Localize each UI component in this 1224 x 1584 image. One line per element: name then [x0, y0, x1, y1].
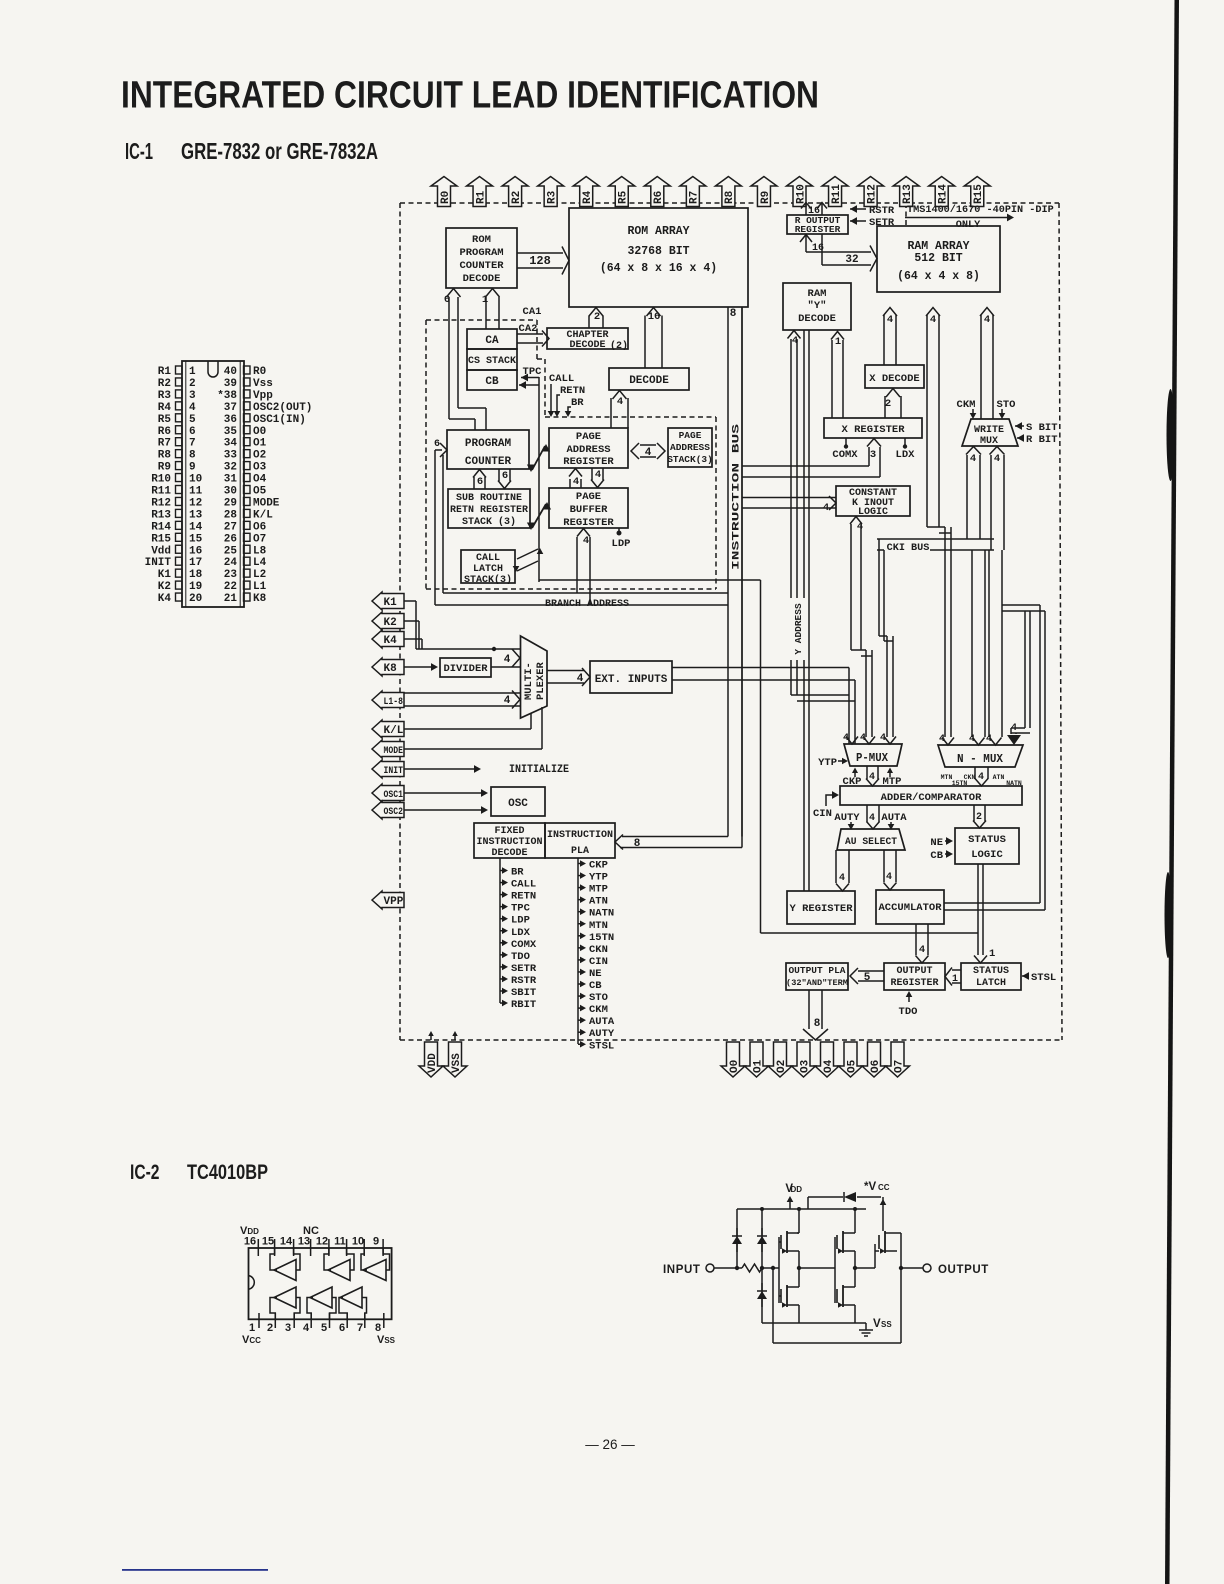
svg-text:X DECODE: X DECODE	[869, 373, 919, 385]
svg-text:O1: O1	[253, 438, 267, 450]
svg-text:DD: DD	[790, 1185, 802, 1194]
svg-text:*38: *38	[217, 390, 237, 402]
svg-text:VDD: VDD	[427, 1053, 439, 1073]
svg-text:RETN: RETN	[560, 385, 585, 397]
svg-text:L1-8: L1-8	[384, 696, 404, 708]
svg-text:26: 26	[224, 533, 237, 545]
svg-text:11: 11	[334, 1236, 346, 1248]
svg-text:LOGIC: LOGIC	[971, 849, 1003, 861]
svg-text:27: 27	[224, 521, 237, 533]
svg-text:128: 128	[529, 254, 551, 268]
svg-text:S BIT: S BIT	[1026, 422, 1058, 434]
svg-text:RAM: RAM	[808, 288, 827, 300]
svg-text:STSL: STSL	[1031, 972, 1056, 984]
svg-text:10: 10	[189, 474, 202, 486]
svg-text:6: 6	[502, 470, 508, 482]
svg-text:15: 15	[189, 533, 203, 545]
svg-text:ADDRESS: ADDRESS	[670, 442, 710, 453]
svg-text:LDX: LDX	[511, 927, 531, 939]
svg-text:LDX: LDX	[896, 449, 916, 461]
svg-text:DECODE: DECODE	[569, 340, 605, 351]
svg-text:2: 2	[189, 378, 196, 390]
svg-text:13: 13	[189, 509, 203, 521]
svg-text:19: 19	[189, 581, 202, 593]
svg-text:O3: O3	[799, 1059, 811, 1073]
svg-text:2: 2	[976, 812, 982, 823]
svg-text:LOGIC: LOGIC	[858, 507, 888, 518]
svg-text:CA2: CA2	[519, 323, 538, 335]
svg-text:R5: R5	[158, 414, 172, 426]
svg-text:RBIT: RBIT	[511, 999, 536, 1011]
svg-text:25: 25	[224, 545, 238, 557]
svg-text:31: 31	[224, 474, 238, 486]
svg-text:Y REGISTER: Y REGISTER	[789, 903, 853, 915]
svg-text:OSC2(OUT): OSC2(OUT)	[253, 402, 312, 414]
svg-text:STO: STO	[589, 992, 608, 1004]
svg-text:4: 4	[919, 944, 925, 956]
svg-text:R8: R8	[724, 190, 736, 204]
svg-text:VPP: VPP	[384, 896, 404, 908]
svg-text:INSTRUCTION BUS: INSTRUCTION BUS	[731, 424, 743, 570]
svg-text:R7: R7	[689, 191, 701, 204]
svg-text:4: 4	[595, 469, 601, 481]
svg-text:ADDER/COMPARATOR: ADDER/COMPARATOR	[881, 792, 983, 804]
svg-text:DECODE: DECODE	[629, 375, 669, 387]
svg-text:ATN: ATN	[589, 896, 608, 908]
svg-text:R14: R14	[938, 184, 950, 204]
svg-text:STACK (3): STACK (3)	[462, 516, 516, 528]
svg-text:R3: R3	[546, 190, 558, 204]
svg-text:CKM: CKM	[589, 1004, 608, 1016]
svg-text:14: 14	[189, 521, 203, 533]
svg-text:REGISTER: REGISTER	[890, 978, 938, 989]
svg-text:CB: CB	[930, 850, 943, 862]
svg-text:512 BIT: 512 BIT	[914, 252, 962, 265]
svg-text:TPC: TPC	[511, 903, 531, 915]
svg-text:O3: O3	[253, 462, 267, 474]
svg-text:4: 4	[839, 873, 845, 884]
svg-text:PLA: PLA	[571, 846, 589, 857]
svg-text:24: 24	[224, 557, 238, 569]
svg-text:RSTR: RSTR	[869, 205, 895, 217]
svg-text:7: 7	[357, 1322, 363, 1334]
svg-text:4: 4	[189, 402, 196, 414]
svg-text:MULTI-: MULTI-	[523, 662, 535, 700]
svg-text:8: 8	[634, 838, 641, 850]
svg-text:INSTRUCTION: INSTRUCTION	[547, 830, 613, 841]
svg-text:SETR: SETR	[869, 217, 895, 229]
svg-text:NC: NC	[303, 1225, 319, 1237]
svg-text:4: 4	[939, 734, 945, 745]
svg-text:K4: K4	[384, 635, 398, 647]
svg-text:AUTA: AUTA	[881, 812, 907, 824]
svg-text:29: 29	[224, 497, 237, 509]
svg-text:PROGRAM: PROGRAM	[459, 247, 503, 259]
svg-text:4: 4	[930, 314, 936, 326]
svg-text:"Y": "Y"	[808, 300, 827, 312]
svg-text:PAGE: PAGE	[576, 491, 601, 503]
svg-text:(2): (2)	[610, 340, 628, 352]
svg-text:O0: O0	[253, 426, 266, 438]
svg-text:R1: R1	[158, 366, 172, 378]
svg-text:Vpp: Vpp	[253, 390, 273, 402]
svg-text:LDP: LDP	[612, 538, 631, 550]
svg-text:R9: R9	[158, 462, 171, 474]
svg-text:R4: R4	[582, 190, 594, 204]
svg-text:CS STACK: CS STACK	[468, 356, 516, 367]
svg-text:— 26 —: — 26 —	[585, 1437, 635, 1452]
svg-text:32: 32	[224, 462, 237, 474]
svg-text:4: 4	[869, 813, 875, 824]
svg-text:15TN: 15TN	[589, 932, 614, 944]
svg-text:IC-2: IC-2	[130, 1161, 160, 1184]
svg-text:O1: O1	[752, 1059, 764, 1073]
svg-text:32: 32	[845, 254, 858, 266]
svg-text:14: 14	[280, 1236, 293, 1248]
svg-text:RETN: RETN	[511, 891, 536, 903]
svg-text:R1: R1	[475, 190, 487, 204]
svg-text:ONLY: ONLY	[956, 220, 981, 231]
svg-text:MTN: MTN	[941, 774, 953, 781]
svg-text:PAGE: PAGE	[679, 430, 702, 441]
svg-text:1: 1	[989, 948, 995, 960]
svg-text:NATN: NATN	[589, 908, 614, 920]
svg-text:N - MUX: N - MUX	[957, 752, 1004, 766]
svg-text:4: 4	[994, 453, 1000, 465]
svg-text:RSTR: RSTR	[511, 975, 537, 987]
svg-text:4: 4	[869, 772, 875, 783]
svg-text:17: 17	[189, 557, 202, 569]
svg-text:4: 4	[792, 335, 798, 347]
svg-text:*V: *V	[864, 1181, 876, 1193]
svg-text:Vdd: Vdd	[151, 545, 171, 557]
svg-text:28: 28	[224, 509, 238, 521]
svg-text:ACCUMLATOR: ACCUMLATOR	[878, 902, 942, 914]
svg-text:(64 x 8 x 16 x 4): (64 x 8 x 16 x 4)	[600, 262, 717, 275]
svg-text:21: 21	[224, 593, 238, 605]
svg-text:8: 8	[814, 1018, 821, 1030]
svg-text:COUNTER: COUNTER	[459, 260, 504, 272]
svg-text:18: 18	[189, 569, 203, 581]
svg-text:K1: K1	[384, 597, 398, 609]
svg-text:AUTY: AUTY	[589, 1028, 615, 1040]
svg-text:X REGISTER: X REGISTER	[841, 424, 905, 436]
svg-text:IC-1: IC-1	[125, 138, 153, 164]
svg-text:6: 6	[339, 1322, 345, 1334]
svg-text:23: 23	[224, 569, 238, 581]
svg-text:O5: O5	[846, 1059, 858, 1073]
svg-text:WRITE: WRITE	[974, 425, 1004, 436]
svg-text:INIT: INIT	[384, 765, 404, 777]
svg-text:OSC2: OSC2	[384, 806, 404, 818]
svg-text:CKN: CKN	[589, 944, 608, 956]
svg-text:R8: R8	[158, 450, 172, 462]
svg-text:5: 5	[189, 414, 196, 426]
svg-text:12: 12	[316, 1236, 328, 1248]
svg-text:33: 33	[224, 450, 238, 462]
svg-text:VCC: VCC	[242, 1334, 261, 1346]
svg-text:DECODE: DECODE	[491, 848, 527, 859]
svg-text:35: 35	[224, 426, 238, 438]
svg-text:DIVIDER: DIVIDER	[443, 663, 488, 675]
svg-text:R7: R7	[158, 438, 171, 450]
svg-text:OUTPUT: OUTPUT	[938, 1264, 989, 1276]
svg-text:4: 4	[978, 772, 984, 783]
svg-text:O5: O5	[253, 486, 267, 498]
svg-text:ROM: ROM	[472, 234, 491, 246]
svg-text:3: 3	[870, 449, 876, 461]
svg-text:CIN: CIN	[589, 956, 608, 968]
svg-text:2: 2	[594, 311, 600, 323]
svg-text:NE: NE	[589, 968, 602, 980]
svg-text:20: 20	[189, 593, 202, 605]
svg-text:SS: SS	[881, 1320, 892, 1329]
svg-text:R0: R0	[440, 191, 452, 204]
svg-text:MODE: MODE	[253, 497, 280, 509]
svg-text:4: 4	[843, 733, 849, 744]
svg-text:16: 16	[189, 545, 202, 557]
svg-text:CALL: CALL	[511, 879, 536, 891]
svg-text:7: 7	[189, 438, 196, 450]
svg-text:REGISTER: REGISTER	[795, 224, 841, 235]
svg-text:OUTPUT PLA: OUTPUT PLA	[788, 965, 845, 976]
svg-text:R12: R12	[151, 497, 171, 509]
svg-text:4: 4	[303, 1322, 310, 1334]
svg-text:GRE-7832 or GRE-7832A: GRE-7832 or GRE-7832A	[181, 138, 378, 164]
svg-text:15: 15	[262, 1236, 274, 1248]
svg-text:INITIALIZE: INITIALIZE	[509, 764, 569, 776]
svg-text:4: 4	[577, 673, 584, 685]
svg-text:V: V	[873, 1318, 881, 1330]
svg-text:4: 4	[860, 733, 866, 744]
svg-text:1: 1	[482, 294, 488, 306]
svg-text:1: 1	[189, 366, 196, 378]
svg-text:AUTA: AUTA	[589, 1016, 615, 1028]
svg-text:R15: R15	[151, 533, 171, 545]
svg-text:R2: R2	[158, 378, 171, 390]
svg-text:6: 6	[444, 294, 450, 306]
svg-text:COMX: COMX	[832, 449, 858, 461]
svg-text:22: 22	[224, 581, 237, 593]
svg-text:16: 16	[648, 311, 661, 323]
svg-text:LATCH: LATCH	[473, 564, 503, 575]
svg-text:1: 1	[952, 974, 958, 985]
svg-text:4: 4	[887, 314, 893, 326]
svg-text:BR: BR	[511, 867, 524, 879]
svg-text:8: 8	[189, 450, 196, 462]
svg-text:4: 4	[617, 396, 623, 408]
svg-text:SETR: SETR	[511, 963, 537, 975]
svg-text:CIN: CIN	[813, 808, 832, 820]
svg-text:LDP: LDP	[511, 915, 530, 927]
svg-text:R4: R4	[158, 402, 172, 414]
svg-text:R10: R10	[151, 474, 171, 486]
svg-text:TC4010BP: TC4010BP	[187, 1161, 268, 1184]
svg-text:O7: O7	[893, 1060, 905, 1073]
svg-text:STATUS: STATUS	[968, 834, 1006, 846]
svg-text:K/L: K/L	[384, 725, 404, 737]
svg-text:COMX: COMX	[511, 939, 537, 951]
svg-text:L4: L4	[253, 557, 267, 569]
svg-text:O4: O4	[253, 474, 267, 486]
svg-text:YTP: YTP	[589, 872, 608, 884]
svg-text:STACK(3): STACK(3)	[667, 454, 713, 465]
svg-text:VSS: VSS	[451, 1053, 463, 1073]
svg-text:CC: CC	[878, 1183, 890, 1192]
svg-text:K1: K1	[158, 569, 172, 581]
svg-text:INIT: INIT	[145, 557, 172, 569]
svg-text:4: 4	[583, 535, 589, 547]
svg-text:12: 12	[189, 497, 202, 509]
svg-text:11: 11	[189, 486, 203, 498]
svg-text:MUX: MUX	[980, 436, 998, 447]
svg-text:37: 37	[224, 402, 237, 414]
svg-text:CB: CB	[485, 376, 499, 388]
svg-text:STO: STO	[997, 399, 1016, 411]
svg-text:DECODE: DECODE	[798, 313, 836, 325]
svg-text:39: 39	[224, 378, 237, 390]
svg-text:9: 9	[373, 1236, 379, 1248]
svg-text:CA1: CA1	[523, 306, 542, 318]
svg-text:MTP: MTP	[589, 884, 608, 896]
svg-text:Y ADDRESS: Y ADDRESS	[793, 603, 804, 655]
svg-text:2: 2	[885, 398, 891, 410]
svg-text:EXT. INPUTS: EXT. INPUTS	[595, 674, 668, 686]
svg-text:R3: R3	[158, 390, 172, 402]
svg-text:PROGRAM: PROGRAM	[465, 438, 512, 450]
svg-text:OSC: OSC	[508, 798, 528, 810]
svg-text:4: 4	[970, 453, 976, 465]
svg-text:4: 4	[986, 734, 992, 745]
svg-text:R15: R15	[973, 184, 985, 204]
svg-text:36: 36	[224, 414, 237, 426]
svg-text:4: 4	[880, 733, 886, 744]
svg-text:(32"AND"TERM: (32"AND"TERM	[786, 978, 848, 988]
svg-text:1: 1	[249, 1322, 255, 1334]
svg-text:R9: R9	[760, 191, 772, 204]
svg-text:K2: K2	[158, 581, 171, 593]
svg-text:NE: NE	[930, 837, 943, 849]
svg-text:R11: R11	[151, 486, 171, 498]
svg-text:4: 4	[823, 502, 829, 514]
svg-text:MTN: MTN	[589, 920, 608, 932]
svg-text:FIXED: FIXED	[494, 826, 524, 837]
svg-text:R10: R10	[795, 184, 807, 204]
svg-text:4: 4	[984, 314, 990, 326]
svg-text:R6: R6	[158, 426, 171, 438]
svg-text:R13: R13	[902, 184, 914, 204]
svg-text:ROM ARRAY: ROM ARRAY	[627, 225, 689, 238]
svg-text:8: 8	[375, 1322, 381, 1334]
svg-text:R0: R0	[253, 366, 266, 378]
svg-text:BUFFER: BUFFER	[570, 504, 609, 516]
svg-text:4: 4	[573, 476, 579, 488]
svg-text:9: 9	[189, 462, 196, 474]
svg-text:REGISTER: REGISTER	[563, 517, 614, 529]
svg-text:YTP: YTP	[818, 757, 837, 769]
svg-text:INSTRUCTION: INSTRUCTION	[476, 837, 542, 848]
svg-text:6: 6	[189, 426, 196, 438]
svg-text:6: 6	[477, 476, 483, 488]
svg-text:O4: O4	[823, 1059, 835, 1073]
svg-text:16: 16	[808, 206, 820, 217]
svg-text:5: 5	[321, 1322, 327, 1334]
svg-text:AUTY: AUTY	[834, 812, 860, 824]
svg-text:K4: K4	[158, 593, 172, 605]
svg-text:CB: CB	[589, 980, 602, 992]
svg-text:RETN REGISTER: RETN REGISTER	[450, 505, 528, 516]
svg-text:R2: R2	[511, 191, 523, 204]
svg-text:13: 13	[298, 1236, 310, 1248]
svg-text:L1: L1	[253, 581, 267, 593]
svg-text:CALL: CALL	[549, 373, 574, 385]
svg-text:L2: L2	[253, 569, 266, 581]
svg-text:(64 x 4 x 8): (64 x 4 x 8)	[897, 270, 980, 283]
svg-text:O7: O7	[253, 533, 266, 545]
svg-text:CALL: CALL	[476, 553, 500, 564]
svg-text:O2: O2	[253, 450, 266, 462]
svg-text:OSC1(IN): OSC1(IN)	[253, 414, 306, 426]
svg-text:TMS1400/1670 -40PIN -DIP: TMS1400/1670 -40PIN -DIP	[907, 204, 1054, 216]
svg-text:K8: K8	[253, 593, 267, 605]
svg-text:STACK(3): STACK(3)	[464, 574, 512, 586]
svg-text:4: 4	[969, 734, 975, 745]
svg-text:ATN: ATN	[993, 774, 1005, 781]
svg-text:VDD: VDD	[240, 1225, 259, 1237]
svg-text:16: 16	[244, 1236, 256, 1248]
svg-text:LATCH: LATCH	[976, 978, 1006, 989]
svg-text:4: 4	[504, 654, 511, 666]
svg-text:3: 3	[189, 390, 196, 402]
svg-text:CKP: CKP	[589, 860, 608, 872]
svg-text:BRANCH ADDRESS: BRANCH ADDRESS	[545, 598, 629, 610]
svg-text:CKI BUS: CKI BUS	[887, 543, 930, 554]
svg-text:K8: K8	[384, 663, 398, 675]
svg-text:O6: O6	[870, 1060, 882, 1073]
svg-text:TDO: TDO	[511, 951, 530, 963]
svg-text:10: 10	[352, 1236, 364, 1248]
svg-text:30: 30	[224, 486, 237, 498]
svg-text:4: 4	[504, 695, 511, 707]
svg-text:OSC1: OSC1	[384, 789, 404, 801]
svg-text:R6: R6	[653, 191, 665, 204]
svg-text:32768 BIT: 32768 BIT	[627, 245, 689, 258]
svg-text:PAGE: PAGE	[576, 431, 601, 443]
svg-text:ADDRESS: ADDRESS	[566, 444, 610, 456]
svg-text:PLEXER: PLEXER	[535, 661, 547, 700]
svg-text:40: 40	[224, 366, 237, 378]
svg-text:CA: CA	[485, 335, 499, 347]
svg-text:SUB ROUTINE: SUB ROUTINE	[456, 493, 522, 504]
svg-text:6: 6	[434, 439, 440, 450]
svg-text:STSL: STSL	[589, 1040, 614, 1052]
svg-text:AU SELECT: AU SELECT	[845, 836, 897, 848]
svg-text:R5: R5	[618, 190, 630, 204]
svg-text:O0: O0	[729, 1060, 741, 1073]
svg-text:O2: O2	[776, 1060, 788, 1073]
svg-text:R BIT: R BIT	[1026, 434, 1058, 446]
svg-text:4: 4	[645, 447, 652, 459]
svg-text:L8: L8	[253, 545, 267, 557]
svg-text:OUTPUT: OUTPUT	[896, 966, 932, 977]
svg-text:K2: K2	[384, 617, 397, 629]
svg-text:DECODE: DECODE	[463, 273, 501, 285]
svg-text:R13: R13	[151, 509, 171, 521]
svg-text:4: 4	[886, 872, 892, 883]
svg-text:P-MUX: P-MUX	[856, 751, 889, 765]
svg-text:BR: BR	[571, 397, 584, 409]
svg-text:INPUT: INPUT	[663, 1264, 701, 1276]
